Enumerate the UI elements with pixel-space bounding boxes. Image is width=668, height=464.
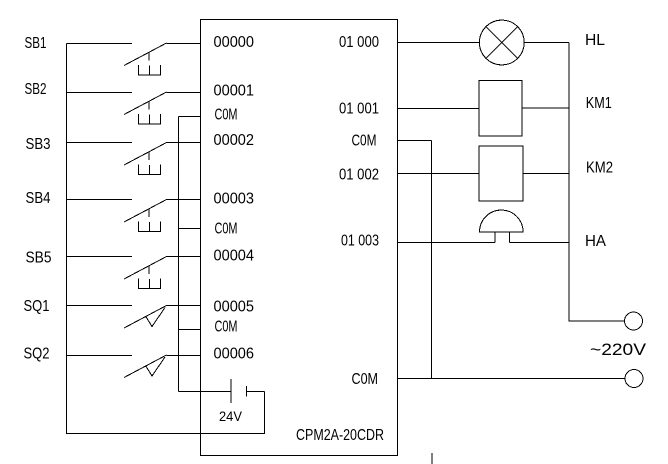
svg-text:01 001: 01 001 <box>339 101 379 118</box>
limit switch SQ2 <box>124 355 167 378</box>
svg-text:SQ2: SQ2 <box>24 346 50 363</box>
svg-text:00002: 00002 <box>214 132 255 149</box>
wire coil KM1 to right rail <box>522 107 569 109</box>
svg-text:24V: 24V <box>219 408 243 424</box>
wire COM bus stub 2 <box>179 228 201 230</box>
svg-text:00006: 00006 <box>214 346 255 363</box>
svg-text:SB5: SB5 <box>26 250 52 267</box>
wire rail to SB2 <box>67 92 133 94</box>
svg-text:C0M: C0M <box>215 319 238 336</box>
wire rail to SB3 <box>67 142 133 144</box>
pushbutton SB5 <box>124 257 167 289</box>
wire 01001 to coil KM1 <box>398 108 480 110</box>
wire coil KM2 to right rail <box>523 173 569 175</box>
contactor coil KM2 <box>479 146 523 201</box>
svg-text:00001: 00001 <box>214 83 255 100</box>
wire output COM to supply terminal N <box>398 378 626 380</box>
svg-text:SQ1: SQ1 <box>24 298 50 315</box>
wire rail to SB4 <box>67 199 133 201</box>
output COM vertical wire <box>431 141 433 379</box>
wire SB1 to 00000 <box>167 43 201 45</box>
supply terminal node L <box>625 312 643 330</box>
svg-text:C0M: C0M <box>215 221 238 238</box>
wire rail to SB1 <box>67 43 133 45</box>
lamp HL <box>479 20 524 65</box>
svg-text:00003: 00003 <box>214 191 255 208</box>
wire 01003 to right rail under buzzer HA <box>398 242 496 244</box>
left supply rail wire <box>67 44 265 434</box>
wire rail to SQ2 <box>67 355 133 357</box>
wire SB2 to 00001 <box>167 92 201 94</box>
svg-text:01 003: 01 003 <box>341 233 379 250</box>
svg-text:SB2: SB2 <box>25 81 47 98</box>
battery B1 24V long plate <box>230 379 232 403</box>
wire lamp HL to right rail <box>524 42 569 44</box>
supply terminal node N <box>625 370 643 388</box>
svg-text:SB4: SB4 <box>26 190 51 207</box>
svg-text:SB1: SB1 <box>25 35 47 52</box>
right supply rail wire <box>569 43 625 322</box>
PLC U1 CPM2A-20CDR box <box>201 20 398 456</box>
svg-text:~220V: ~220V <box>590 340 647 359</box>
wire SB3 to 00002 <box>167 142 201 144</box>
wire COM bus stub 1 <box>179 116 201 118</box>
svg-text:C0M: C0M <box>352 371 379 388</box>
svg-text:C0M: C0M <box>215 107 238 124</box>
wire 01002 to coil KM2 <box>398 173 480 175</box>
limit switch SQ1 <box>124 306 167 329</box>
buzzer HA <box>480 210 524 242</box>
pushbutton SB4 <box>124 200 167 232</box>
battery B1 24V short plate <box>246 386 248 397</box>
svg-text:KM1: KM1 <box>586 95 612 112</box>
svg-text:00005: 00005 <box>214 299 255 316</box>
pushbutton SB3 <box>124 143 167 175</box>
wire battery negative to bottom rail <box>247 391 265 393</box>
wire rail to SB5 <box>67 256 133 258</box>
svg-text:01 002: 01 002 <box>339 167 379 184</box>
bottom caption tick <box>431 453 433 464</box>
svg-text:HL: HL <box>585 32 605 49</box>
wire SQ1 to 00005 <box>167 305 201 307</box>
wire bus to battery positive <box>179 391 232 393</box>
svg-text:KM2: KM2 <box>586 160 613 177</box>
svg-text:HA: HA <box>585 233 606 250</box>
wire SB4 to 00003 <box>167 199 201 201</box>
wire 01000 to lamp HL <box>398 42 480 44</box>
wire output COM to COM line <box>398 140 432 142</box>
svg-text:01 000: 01 000 <box>339 34 379 51</box>
wire COM bus stub 3 <box>179 329 201 331</box>
svg-text:SB3: SB3 <box>26 136 51 153</box>
wire SQ2 to 00006 <box>167 355 201 357</box>
svg-text:00000: 00000 <box>214 34 255 51</box>
svg-text:C0M: C0M <box>352 133 377 150</box>
contactor coil KM1 <box>479 81 522 137</box>
pushbutton SB2 <box>124 92 167 124</box>
wire rail to SQ1 <box>67 305 133 307</box>
pushbutton SB1 <box>124 43 167 75</box>
wire SB5 to 00004 <box>167 256 201 258</box>
svg-text:00004: 00004 <box>214 248 255 265</box>
input COM bus wire <box>178 117 180 392</box>
svg-text:CPM2A-20CDR: CPM2A-20CDR <box>296 427 384 444</box>
